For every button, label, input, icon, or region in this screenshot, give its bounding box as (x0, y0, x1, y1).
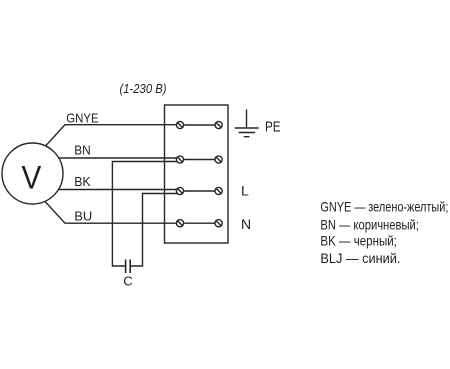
wire BN (50, 157, 178, 159)
terminal 4 left screw (176, 220, 183, 227)
svg-text:BK — черный;: BK — черный; (320, 234, 397, 249)
terminal 3 left screw (176, 187, 183, 194)
wire capacitor branch from terminal 2 (112, 162, 178, 267)
svg-text:N: N (241, 216, 251, 232)
wire BK (50, 189, 178, 191)
terminal 1 right screw (215, 121, 222, 128)
terminal row 3 (L) connector (183, 190, 215, 192)
ground PE symbol (235, 110, 259, 137)
capacitor C (126, 260, 131, 274)
wire capacitor branch from terminal 3 (131, 194, 179, 267)
svg-text:BK: BK (74, 174, 91, 189)
svg-text:PE: PE (265, 118, 281, 135)
svg-text:GNYE: GNYE (66, 110, 98, 125)
svg-text:C: C (123, 274, 132, 289)
terminal row 4 (N) connector (183, 222, 215, 224)
svg-text:(1-230 В): (1-230 В) (120, 81, 167, 96)
svg-text:BU: BU (74, 209, 92, 224)
wire BU (40, 196, 178, 223)
svg-text:V: V (22, 159, 42, 195)
svg-text:BLJ — синий.: BLJ — синий. (320, 251, 400, 266)
terminal 2 left screw (176, 156, 183, 163)
svg-text:L: L (241, 182, 249, 198)
terminal 2 right screw (215, 156, 222, 163)
svg-text:BN: BN (74, 143, 91, 158)
terminal block outline (165, 105, 229, 243)
terminal row 1 (PE) connector (183, 124, 215, 126)
svg-text:BN — коричневый;: BN — коричневый; (320, 218, 419, 233)
svg-text:GNYE — зелено-желтый;: GNYE — зелено-желтый; (320, 199, 448, 214)
voltmeter V1 circle (2, 143, 63, 204)
terminal 4 right screw (215, 220, 222, 227)
terminal row 2 (BN) connector (183, 159, 215, 161)
wire GNYE (40, 125, 178, 152)
terminal 3 right screw (215, 187, 222, 194)
terminal 1 left screw (176, 121, 183, 128)
